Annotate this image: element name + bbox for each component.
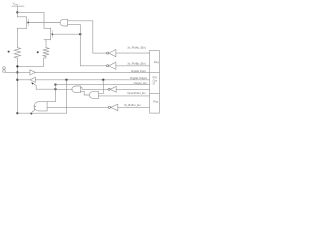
- wire driver out to pad net: [17, 79, 29, 81]
- node junction dot Digital Output branch right: [102, 79, 104, 81]
- wire gate D output to enable net: [56, 88, 73, 90]
- wire VANA to T2 drain (right then down): [17, 12, 44, 28]
- resistor R1: [14, 48, 20, 59]
- node VANA supply label: [13, 2, 19, 6]
- label register box 2: [153, 76, 158, 85]
- power rail VANA bar: [12, 5, 24, 7]
- register box column: [150, 50, 160, 113]
- inverter U4 PolBp: [80, 62, 149, 69]
- wire R1 bottom to pad net: [16, 58, 18, 113]
- pad terminal PAD: [3, 67, 6, 73]
- node junction dot PolBp tap: [79, 33, 81, 35]
- wire pad to input buffer: [5, 71, 30, 73]
- node junction dot pad corner: [16, 112, 18, 114]
- gate D AND (faces left): [72, 86, 81, 93]
- node junction dot pad wire: [16, 71, 18, 73]
- op-amp U2 output driver: [30, 77, 36, 82]
- wire Q2 gate to PolBp net: [54, 33, 80, 35]
- svg-text:ana: ana: [15, 4, 19, 6]
- wire Q1 gate to AND gate A output: [30, 22, 60, 24]
- wire OpenDrain row 2 to gate B: [99, 95, 150, 97]
- wire gate A bottom input to PolBp net: [68, 25, 81, 66]
- gate E AND (faces left): [34, 102, 47, 111]
- node junction dot R2 join: [16, 65, 18, 67]
- svg-text:IO: IO: [153, 82, 156, 85]
- wire Digital Output branch down to pad foot: [66, 80, 68, 113]
- label pull-down arrowhead: [30, 113, 33, 115]
- svg-text:Digital Input: Digital Input: [131, 69, 146, 73]
- wire Digital Input row: [35, 71, 149, 73]
- node junction dot VANA: [16, 11, 18, 13]
- svg-text:3x_PolAp_(En): 3x_PolAp_(En): [127, 45, 146, 49]
- transistor Q2 pull-up: [44, 28, 54, 40]
- label U2 enable arrowhead: [31, 82, 34, 85]
- wire pull-down arrow diagonal: [30, 106, 36, 113]
- inverter U3 PolAp: [93, 50, 150, 57]
- wire Digital Output branch to gate B: [99, 80, 104, 94]
- inverter U5 OpenDrain: [81, 86, 150, 92]
- wire Output_En row: [47, 85, 150, 102]
- svg-text:Reg: Reg: [154, 61, 159, 64]
- wire Q1 source down to resistor R1: [16, 28, 18, 47]
- wire pad foot bottom: [17, 112, 66, 114]
- wire Digital Output row: [35, 79, 149, 81]
- svg-text:3x_Buffer_En: 3x_Buffer_En: [124, 103, 141, 107]
- wire rail stub down: [16, 6, 18, 12]
- svg-text:3x_PolBp_(En): 3x_PolBp_(En): [127, 61, 146, 65]
- node junction dot Output_En corner: [54, 83, 56, 85]
- inverter U6 Buffer_En: [47, 104, 150, 110]
- wire U2 enable arrow: [33, 83, 56, 89]
- transistor Q1 pull-up: [17, 17, 29, 29]
- gate B AND (faces left): [89, 92, 98, 99]
- svg-text:Reg: Reg: [153, 100, 158, 103]
- svg-text:OpenDrain_En: OpenDrain_En: [127, 91, 146, 95]
- wire gate B output to gate D: [81, 91, 89, 95]
- wire Q2 source down to resistor R2: [45, 40, 47, 48]
- wire R2 bottom to pad net: [17, 57, 46, 67]
- node junction dot Digital Output branch left: [65, 79, 67, 81]
- svg-text:Output_En: Output_En: [134, 81, 148, 85]
- wire VANA down to T1 drain: [16, 12, 18, 16]
- node junction dot enable net: [54, 88, 56, 90]
- label R1 value: [8, 51, 10, 53]
- svg-text:Digital Output: Digital Output: [130, 76, 147, 80]
- gate A AND (faces left): [60, 19, 68, 26]
- resistor R2: [43, 48, 49, 57]
- label R2 value: [37, 51, 39, 53]
- op-amp U1 input buffer: [30, 70, 36, 75]
- wire gate A top input to PolAp net: [68, 21, 93, 53]
- node junction dot driver out: [16, 79, 18, 81]
